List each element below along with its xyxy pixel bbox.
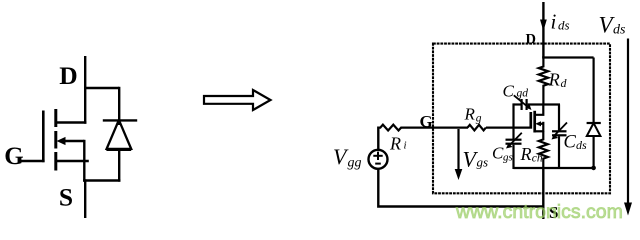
- wire: Cgd to drain line: [528, 103, 560, 105]
- wire: S line down from rail: [542, 168, 544, 219]
- wire: left MOSFET source pin: [84, 179, 86, 218]
- svg-text:ch: ch: [532, 153, 543, 165]
- svg-text:D: D: [526, 32, 536, 48]
- svg-text:R: R: [548, 70, 560, 90]
- wire: gate wire from Rg to gate bar: [486, 126, 530, 128]
- voltage source Vgg circle: [369, 150, 388, 169]
- wire: bottom source rail: [514, 167, 595, 169]
- inner body diode lead from top wire: [592, 58, 594, 124]
- wire: bottom wire from source to body diode: [83, 179, 120, 181]
- wire: drain feed line: [542, 2, 544, 58]
- dashed model boundary box: [433, 44, 610, 194]
- resistor Ri: [378, 125, 401, 131]
- svg-text:i: i: [404, 140, 407, 152]
- svg-text:www.cntronics.com: www.cntronics.com: [455, 201, 623, 223]
- i_ds current arrowhead: [540, 20, 547, 32]
- svg-text:ds: ds: [613, 23, 626, 38]
- svg-text:R: R: [389, 134, 401, 154]
- wire: left MOSFET drain pin: [84, 56, 86, 124]
- body diode D1 triangle: [107, 120, 132, 149]
- svg-text:ds: ds: [558, 18, 570, 33]
- wire: left MOSFET drain stub: [55, 121, 87, 123]
- svg-text:D: D: [59, 61, 77, 90]
- svg-text:G: G: [420, 112, 433, 131]
- wire: Vgg bottom lead: [378, 168, 543, 206]
- inner MOSFET gate bar: [529, 112, 532, 129]
- wire: gate wire from Ri to Rg: [401, 126, 469, 128]
- svg-text:ds: ds: [576, 138, 587, 152]
- svg-text:C: C: [564, 133, 577, 153]
- capacitor Cds plates: [552, 130, 567, 132]
- body diode D1 anode lead: [118, 150, 120, 182]
- inner body diode triangle: [587, 123, 601, 136]
- Vgg plus sign: [373, 155, 382, 157]
- wire: Cds branch upper: [558, 105, 560, 131]
- wire: top wire from drain to body diode: [84, 87, 119, 89]
- capacitor Cgs plates: [506, 139, 522, 141]
- inner MOSFET source-side vertical: [542, 122, 544, 132]
- V_gs arrowhead: [455, 169, 463, 180]
- left MOSFET channel segment (body): [54, 131, 57, 149]
- inner MOSFET drain stub: [535, 105, 544, 115]
- body diode D1 cathode lead: [118, 87, 120, 125]
- inner MOSFET body arrow stub: [538, 123, 543, 125]
- Vgg minus sign: [375, 163, 381, 165]
- wire: Cgd node wire (gate rail to plates): [514, 103, 521, 105]
- left MOSFET body arrow stub: [62, 140, 84, 142]
- body diode D1 cathode bar: [103, 119, 137, 121]
- inner MOSFET channel bar: [533, 111, 536, 133]
- inner MOSFET source stub: [535, 130, 544, 132]
- svg-text:gg: gg: [348, 156, 362, 171]
- V_gs arrow line: [457, 129, 459, 171]
- svg-text:C: C: [503, 82, 515, 101]
- inner body diode cathode bar: [587, 122, 601, 124]
- capacitor Cgd plates: [520, 99, 522, 110]
- block arrow (transition): [204, 90, 271, 110]
- junction dot at diode/rail: [591, 166, 596, 171]
- wire: gate rail upper: [512, 103, 514, 139]
- wire: Vgg top lead: [377, 127, 379, 151]
- svg-text:R: R: [520, 144, 532, 164]
- inner body diode anode lead: [592, 136, 594, 168]
- wire: top inner wire: [542, 56, 593, 58]
- V_ds arrowhead: [624, 203, 632, 216]
- wire: gate rail lower: [512, 145, 514, 169]
- svg-text:S: S: [59, 183, 73, 212]
- svg-text:d: d: [561, 76, 568, 90]
- capacitor Cgs arrow (nonlinear): [508, 133, 522, 147]
- svg-text:G: G: [4, 143, 23, 170]
- svg-text:i: i: [551, 10, 557, 34]
- wire: left MOSFET gate lead: [21, 160, 45, 162]
- wire: left MOSFET source stub: [55, 160, 89, 162]
- resistor Rg: [468, 125, 486, 131]
- resistor Rd: [539, 57, 548, 105]
- V_ds arrow line: [627, 39, 629, 206]
- resistor Rch: [539, 131, 548, 168]
- left MOSFET channel segment (drain side): [54, 109, 57, 127]
- left MOSFET gate bar: [42, 111, 45, 163]
- svg-text:R: R: [464, 105, 476, 124]
- wire: left MOSFET source vertical: [83, 140, 85, 182]
- svg-text:gs: gs: [477, 155, 489, 170]
- svg-text:gs: gs: [503, 152, 513, 164]
- left MOSFET channel segment (source side): [54, 152, 57, 171]
- svg-text:gd: gd: [517, 88, 529, 100]
- body diode D1 anode bar: [106, 149, 131, 151]
- capacitor Cds arrow (nonlinear): [554, 123, 568, 137]
- wire: Cds branch lower: [558, 136, 560, 169]
- capacitor Cgd arrow (nonlinear): [514, 95, 530, 108]
- svg-text:g: g: [476, 113, 482, 125]
